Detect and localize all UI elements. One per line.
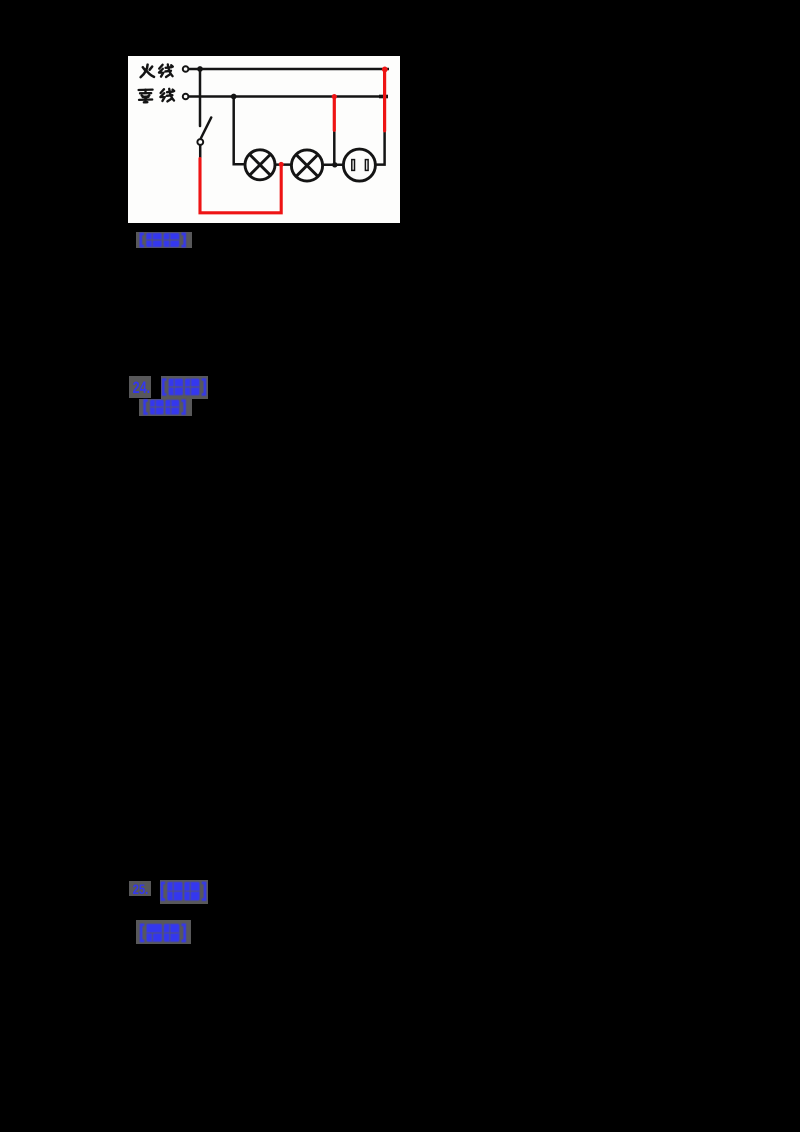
wire switch feed (199, 69, 202, 126)
red junction blob neutral tap (332, 94, 337, 99)
wire below switch (199, 145, 202, 158)
red wire: live to socket right (383, 70, 386, 131)
terminal neutral (183, 94, 189, 100)
switch blade (201, 118, 211, 139)
wire between lamps (275, 163, 291, 166)
wire socket branch black part (333, 130, 336, 163)
wire neutral (189, 95, 388, 98)
wire neutral drop to lamp1 (234, 97, 245, 165)
wire neutral thick right end (379, 95, 388, 99)
label lingxian (neutral wire) (139, 90, 153, 103)
wire lamp2 to socket (323, 164, 344, 167)
junction C (socket branch) (332, 162, 337, 167)
red wire: neutral to socket branch (333, 96, 336, 130)
answer link: jieda 25 (136, 920, 191, 944)
label xian (wire char) (159, 64, 173, 77)
junction B (neutral to lamp1) (231, 94, 237, 100)
label xian2 (160, 89, 174, 102)
circuit schematic panel (128, 56, 400, 223)
junction A (live to switch) (197, 66, 203, 72)
label huoxian (live wire) (141, 65, 154, 78)
switch pivot (197, 139, 203, 145)
answer link: jieda 24 (139, 399, 192, 415)
red wire: switch to lamp1 output (200, 159, 281, 213)
answer link: daan 25 (160, 880, 208, 904)
svg-text:24.: 24. (132, 378, 150, 397)
answer number 25 (129, 881, 151, 896)
terminal live (183, 66, 189, 72)
red junction blob top right (382, 67, 388, 73)
lamp L1 (245, 150, 275, 180)
answer number 24 (129, 376, 152, 399)
wire live drop black part (376, 130, 385, 165)
svg-text:25.: 25. (132, 882, 148, 896)
wire live top (189, 68, 389, 71)
lamp L2 (291, 150, 322, 181)
socket X (343, 149, 375, 181)
answer link: jieda 1 (136, 232, 192, 248)
red junction blob lamp1 output (279, 162, 284, 167)
answer link: daan 24 (161, 376, 208, 399)
